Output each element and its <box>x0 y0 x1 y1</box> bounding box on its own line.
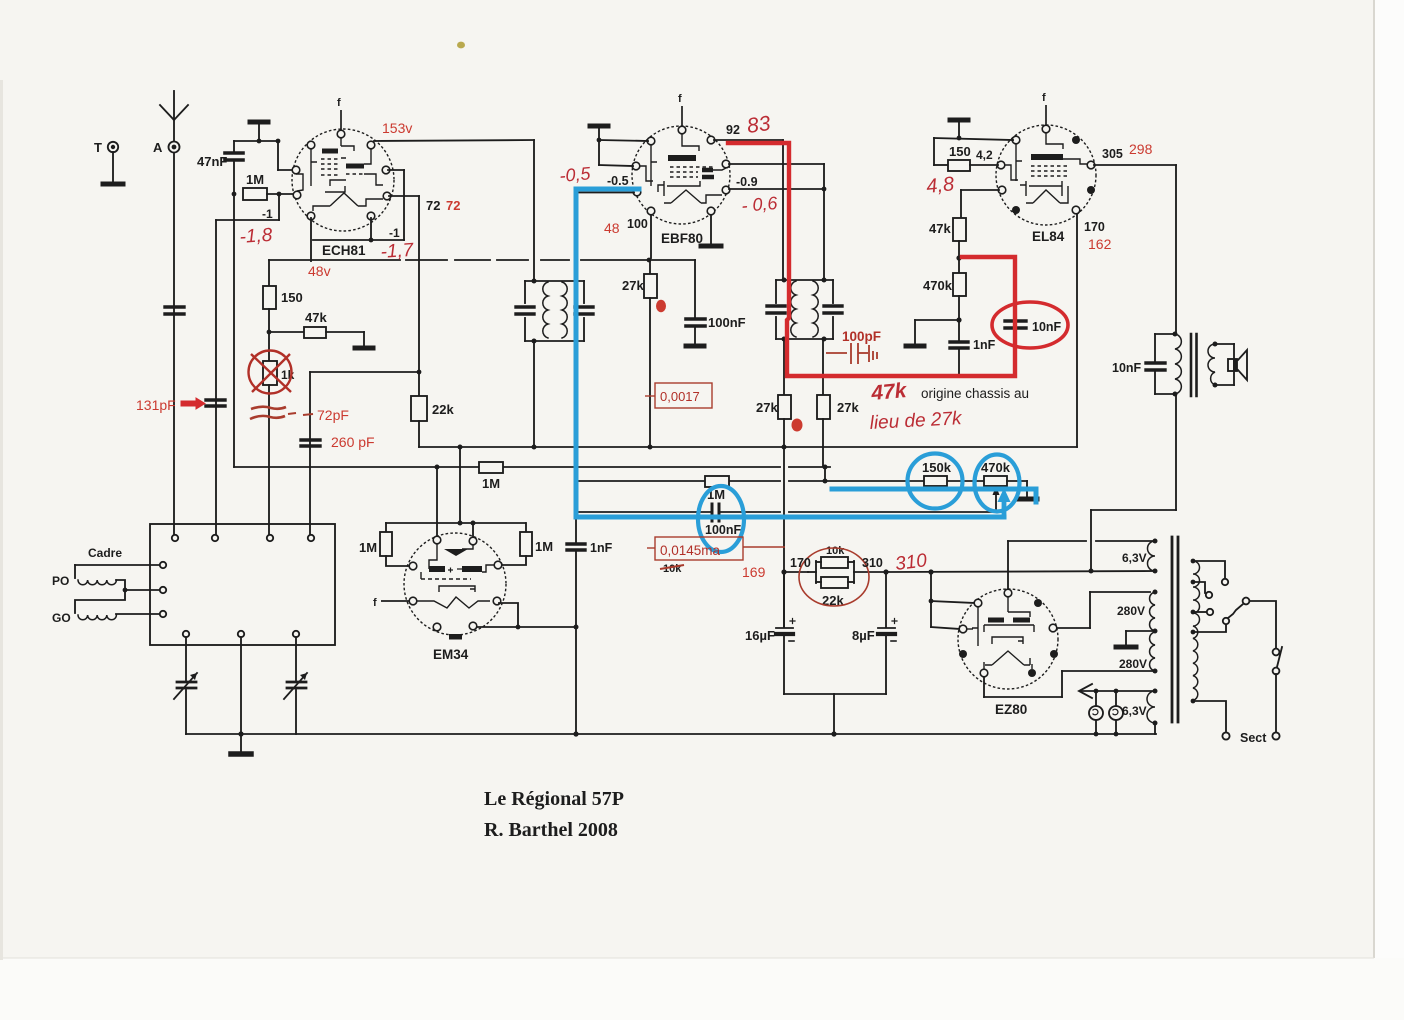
svg-text:131pF: 131pF <box>136 397 176 413</box>
svg-text:-0,5: -0,5 <box>559 163 593 186</box>
wire bus D to 1nF / EM34 <box>567 512 585 734</box>
wire to EZ80 cathode pins <box>931 572 975 629</box>
svg-text:1M: 1M <box>359 540 377 555</box>
mains tap 1 <box>1193 561 1228 585</box>
resistor 1M (EM34 right) <box>501 523 532 565</box>
red dot marker (output stage divider) <box>792 419 803 432</box>
wire winding bottom to Sect terminal <box>1193 701 1230 740</box>
svg-text:origine chassis au: origine chassis au <box>921 386 1029 401</box>
svg-text:150k: 150k <box>922 460 952 475</box>
svg-text:150: 150 <box>949 144 971 159</box>
svg-text:72pF: 72pF <box>317 407 349 423</box>
resistor 1k (crossed out) <box>263 361 277 385</box>
bus B (y467) <box>234 466 830 468</box>
mains switch <box>1272 647 1282 740</box>
svg-text:100pF: 100pF <box>842 329 881 344</box>
power transformer 6.3V bottom winding <box>1147 691 1155 723</box>
svg-text:6,3V: 6,3V <box>1122 551 1147 565</box>
resistor 1M (ECH81 grid) <box>243 188 295 200</box>
wire osc feedback y372 <box>310 372 419 535</box>
EM34 internal electrodes <box>417 544 494 640</box>
block terminals left <box>160 562 166 617</box>
red ellipse around 10nF <box>992 302 1068 348</box>
svg-text:6,3V: 6,3V <box>1122 704 1147 718</box>
resistor 22k <box>411 396 427 421</box>
block terminals top <box>172 535 314 541</box>
IF transformer 1 <box>516 281 593 341</box>
svg-text:27k: 27k <box>622 278 644 293</box>
capacitor 8uF <box>878 572 897 694</box>
svg-text:310: 310 <box>894 550 928 575</box>
svg-text:f: f <box>678 93 682 105</box>
resistor 1M (EM34 left) <box>380 523 410 566</box>
svg-text:EBF80: EBF80 <box>661 231 703 246</box>
ground bus bottom <box>186 733 1156 735</box>
ECH81 pins <box>292 130 391 220</box>
wire IF1 bottom to AVC bus <box>533 341 535 447</box>
svg-text:170: 170 <box>790 556 811 570</box>
svg-text:f: f <box>373 597 377 609</box>
svg-text:280V: 280V <box>1117 604 1145 618</box>
svg-text:-0.9: -0.9 <box>736 175 758 189</box>
red 100pF capacitor sketch <box>826 343 877 364</box>
resistor 150k <box>924 476 947 486</box>
EM34 top rail <box>386 522 525 524</box>
power transformer primary 6.3V top winding <box>1148 541 1156 571</box>
svg-text:47k: 47k <box>929 221 951 236</box>
wire 47nF down to 1M and AVC bus <box>233 160 235 467</box>
svg-text:27k: 27k <box>756 400 778 415</box>
resistor 27k (EBF80) <box>644 260 657 447</box>
svg-text:47k: 47k <box>305 310 327 325</box>
mains tap 4 <box>1193 618 1229 632</box>
mains tap 2 <box>1193 582 1212 598</box>
svg-text:162: 162 <box>1088 236 1112 252</box>
svg-text:305: 305 <box>1102 147 1123 161</box>
trimmer capacitor 1 <box>174 637 197 734</box>
HT centre tap ground <box>1116 631 1155 647</box>
bus D (y512) <box>575 511 996 513</box>
block terminals bottom <box>183 631 299 637</box>
wire EBF80 screen line <box>650 215 652 258</box>
svg-text:170: 170 <box>1084 220 1105 234</box>
svg-text:1M: 1M <box>246 172 264 187</box>
wire cadre top <box>75 565 159 578</box>
pot wiper arrow <box>993 486 1000 512</box>
wire EL84 cathode down to AVC bus corner <box>1076 214 1078 447</box>
capacitor 47nF <box>225 141 243 160</box>
svg-text:-1,8: -1,8 <box>239 225 274 248</box>
svg-text:GO: GO <box>52 611 71 625</box>
capacitor 10nF (red-circled) <box>1005 321 1026 328</box>
svg-text:260 pF: 260 pF <box>331 434 375 450</box>
wire ECH81 triode anode down through 22k <box>389 196 419 396</box>
main chassis ground <box>231 734 251 754</box>
svg-text:47k: 47k <box>869 379 908 405</box>
svg-text:16µF: 16µF <box>745 628 775 643</box>
red marker trace (EBF80 anode supply mod) <box>728 143 1015 376</box>
svg-text:72: 72 <box>446 198 460 213</box>
svg-text:47nF: 47nF <box>197 154 227 169</box>
svg-text:72: 72 <box>426 198 440 213</box>
svg-text:1k: 1k <box>281 368 295 382</box>
EL84 pins <box>997 125 1095 214</box>
EM34 pins <box>409 536 502 631</box>
red circle crossing out 1k <box>249 351 292 394</box>
wire bus A to EM34 target line <box>459 447 461 523</box>
svg-text:92: 92 <box>726 123 740 137</box>
capacitor 100nF (coupling, blue-circled) <box>712 504 719 521</box>
svg-text:-0.5: -0.5 <box>607 174 629 188</box>
wire under blue marker to EBF80 grid <box>577 192 634 194</box>
wire B+ drop to 170 node <box>783 447 785 627</box>
bus C (y481) with 1M <box>578 480 984 482</box>
ground at EL84 top <box>950 120 968 138</box>
svg-text:298: 298 <box>1129 141 1153 157</box>
svg-text:10nF: 10nF <box>1032 320 1062 334</box>
red dot marker (EBF80 screen) <box>656 300 666 312</box>
antenna <box>160 91 188 141</box>
heater rail with arrow <box>1079 684 1155 698</box>
blue circle around 150k <box>908 454 963 509</box>
resistor 10k (top of pair) <box>821 557 848 568</box>
voltage selector arm <box>1228 598 1249 618</box>
resistor 150 (EL84 cathode) <box>948 160 970 171</box>
IF transformer 2 <box>767 280 842 339</box>
svg-text:T: T <box>94 140 102 155</box>
ground at EBF80 cathode <box>701 215 721 246</box>
output transformer secondary <box>1208 344 1215 385</box>
wire ECH81 anode to IF1 top <box>374 140 534 279</box>
svg-text:Le Régional 57P: Le Régional 57P <box>484 788 624 810</box>
power transformer mains secondary <box>1193 561 1200 700</box>
blue circle around 100nF <box>698 486 744 552</box>
EZ80 internal electrodes <box>967 597 1034 669</box>
svg-text:f: f <box>337 97 341 109</box>
capacitor 1nF <box>950 342 968 374</box>
svg-text:f: f <box>1042 92 1046 104</box>
svg-text:PO: PO <box>52 574 69 588</box>
EBF80 heater lead f <box>681 106 683 126</box>
svg-text:1M: 1M <box>535 539 553 554</box>
resistor 22k (bottom of pair) <box>821 577 848 588</box>
wire antenna down to frame block <box>173 153 175 535</box>
wire EBF80 diode 2 <box>729 188 824 190</box>
frame block (tuning gang) <box>150 524 335 645</box>
svg-text:EZ80: EZ80 <box>995 702 1027 717</box>
svg-text:280V: 280V <box>1119 657 1147 671</box>
capacitor 260pF <box>301 440 320 446</box>
svg-text:- 0,6: - 0,6 <box>741 193 780 216</box>
svg-text:1nF: 1nF <box>590 541 613 555</box>
wire to EBF80 g1/g3 pins <box>599 140 648 166</box>
svg-text:169: 169 <box>742 564 766 580</box>
svg-text:0,0145ma: 0,0145ma <box>660 543 721 558</box>
blue circle around 470k <box>975 455 1020 512</box>
svg-text:100nF: 100nF <box>705 523 741 537</box>
ground at EBF80 top-left <box>590 126 608 165</box>
svg-text:0,0017: 0,0017 <box>660 389 700 404</box>
svg-text:-1,7: -1,7 <box>380 240 416 263</box>
svg-text:R. Barthel 2008: R. Barthel 2008 <box>484 819 618 841</box>
red measurement box 0,0017 <box>645 383 712 408</box>
tube EBF80 <box>632 93 730 246</box>
svg-text:Sect: Sect <box>1240 731 1267 745</box>
resistor 47k (EL84 grid) <box>953 218 966 241</box>
svg-text:10k: 10k <box>826 545 845 557</box>
pilot lamp 1 <box>1089 691 1103 734</box>
svg-text:A: A <box>153 140 163 155</box>
ECH81 heater lead f <box>340 110 342 130</box>
wire EL84 anode to output transformer <box>1094 165 1176 332</box>
wire EL84 grid to 47k <box>961 190 999 218</box>
blue arrow up at pot <box>998 488 1011 517</box>
resistor 27k (IF2 left) <box>778 339 791 447</box>
svg-text:22k: 22k <box>432 402 454 417</box>
wire speaker line down <box>1091 394 1176 571</box>
pilot lamp 2 <box>1109 691 1123 734</box>
svg-text:1nF: 1nF <box>973 338 996 352</box>
svg-text:83: 83 <box>745 112 772 138</box>
resistor 47k to ground <box>269 327 373 348</box>
wire EBF80 diode plate to IF2 right <box>729 164 824 279</box>
svg-text:150: 150 <box>281 290 303 305</box>
svg-text:4,2: 4,2 <box>976 148 993 162</box>
svg-text:EM34: EM34 <box>433 647 469 662</box>
red scribble 72pF correction <box>250 407 313 419</box>
svg-text:100: 100 <box>627 217 648 231</box>
resistor 150 (ECH81 cathode) <box>263 260 276 361</box>
wire EM34 cathode side <box>477 603 576 627</box>
svg-text:-1: -1 <box>262 207 273 221</box>
svg-text:310: 310 <box>862 556 883 570</box>
power transformer 280V windings <box>1150 592 1155 631</box>
svg-text:153v: 153v <box>382 120 412 136</box>
trimmer capacitor 2 <box>284 637 307 734</box>
svg-text:10nF: 10nF <box>1112 361 1142 375</box>
red measurement box 0,0145ma <box>647 537 785 560</box>
svg-text:ECH81: ECH81 <box>322 243 366 258</box>
tube EZ80 <box>958 589 1058 717</box>
red arrow at 131pF <box>181 398 205 409</box>
power transformer core <box>1172 537 1178 722</box>
terminal A <box>169 142 180 153</box>
output transformer primary <box>1175 334 1181 394</box>
wire gang center to ground bus <box>240 637 242 734</box>
svg-text:EL84: EL84 <box>1032 229 1065 244</box>
blue marker trace 2 (AVC to 150k/470k) <box>832 489 1036 502</box>
wire EBF80 anode to IF2 <box>714 140 783 279</box>
speaker <box>1215 344 1247 385</box>
EL84 heater lead f <box>1045 105 1047 125</box>
wire AVC to EM34 grid <box>436 467 438 536</box>
wire EZ80 plates to 280V <box>1057 592 1150 628</box>
wire EZ80 filament to 6.3V winding <box>1008 541 1155 589</box>
mains tap 3 <box>1193 609 1213 615</box>
EBF80 internal electrodes <box>640 134 726 203</box>
wire EZ80 heater return <box>984 671 1155 697</box>
coil PO <box>78 580 116 585</box>
resistor 27k (IF2 right) <box>817 339 830 466</box>
capacitor 131pF (padder in osc line) <box>206 400 225 406</box>
capacitor in antenna lead <box>165 307 184 314</box>
tube EM34 <box>373 533 506 662</box>
wire ECH81 right pin loop <box>311 170 404 261</box>
EBF80 pins <box>632 126 730 215</box>
wire oscillator grid bracket <box>216 196 279 535</box>
output transformer core <box>1191 334 1197 396</box>
wire cathode line y260 (dashed by scan fade) <box>269 259 695 261</box>
svg-text:470k: 470k <box>981 460 1011 475</box>
EZ80 pins <box>959 589 1057 677</box>
wire to EL84 g pin <box>934 138 1013 165</box>
EL84 internal electrodes <box>1005 133 1088 203</box>
tube ECH81 <box>292 97 394 258</box>
ground branch <box>906 320 959 346</box>
red circle around 10k/22k pair <box>799 548 869 606</box>
AVC bus (y447) <box>419 446 1077 448</box>
capacitor 100nF to ground <box>686 260 705 346</box>
coil GO <box>78 615 116 620</box>
svg-text:4,8: 4,8 <box>925 173 955 198</box>
blue marker trace (EBF80 grid to volume pot) <box>576 189 1004 517</box>
potentiometer 470k <box>984 476 1007 486</box>
tube EL84 <box>996 92 1096 244</box>
wire 47nF/ground to ECH81 grid pins <box>234 141 294 170</box>
terminal T <box>103 142 123 184</box>
capacitor 16uF <box>776 572 795 694</box>
svg-text:48: 48 <box>604 220 620 236</box>
wire selector to switch <box>1250 601 1276 648</box>
svg-text:-1: -1 <box>389 226 400 240</box>
svg-text:Cadre: Cadre <box>88 546 122 560</box>
ECH81 internal electrodes <box>296 138 383 211</box>
svg-text:8µF: 8µF <box>852 628 875 643</box>
resistor 470k <box>953 273 966 296</box>
wire 310 rail to transformer <box>886 571 1156 572</box>
svg-text:470k: 470k <box>923 278 953 293</box>
ground (top, near 47nF) <box>250 122 268 141</box>
node 170 / parallel resistors 10k+22k <box>784 571 808 573</box>
svg-text:48v: 48v <box>308 263 331 279</box>
svg-text:100nF: 100nF <box>708 315 746 330</box>
svg-text:1M: 1M <box>482 476 500 491</box>
svg-text:27k: 27k <box>837 400 859 415</box>
wire filter caps to ground bus <box>784 694 886 734</box>
resistor 1M (AVC) <box>479 462 503 473</box>
capacitor 10nF across primary <box>1146 334 1175 394</box>
